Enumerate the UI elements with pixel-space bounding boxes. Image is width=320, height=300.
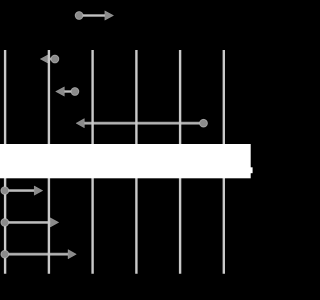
arrow A7 head [68,250,76,259]
arrow A1 shaft [79,14,105,17]
arrow A2 shaft [49,58,55,61]
white highlight band [0,144,251,178]
arrow A5 shaft [5,189,35,192]
dot of arrow A2 [51,55,59,63]
vertical line 6 [223,50,225,274]
arrow A2 head [40,54,49,63]
dot of arrow A4 [200,119,208,127]
dot of arrow A1 [75,12,83,20]
arrow A1 head [105,11,114,20]
vertical line 2 [48,50,50,274]
white band right-edge bump [250,167,253,173]
dot of arrow A5 [1,187,9,195]
vertical line 3 [91,50,93,274]
arrow A6 shaft [5,221,51,224]
arrow A6 head [50,218,59,227]
vertical line 4 [135,50,137,274]
arrow A4 head [76,119,84,128]
dot of arrow A3 [71,88,79,96]
arrow A7 shaft [5,253,68,256]
vertical line 5 [179,50,181,274]
dot of arrow A6 [1,219,9,227]
arrow A3 shaft [64,90,75,93]
arrow A3 head [56,87,65,96]
arrow A4 shaft [84,122,203,125]
arrow A5 head [34,186,43,195]
vertical line 1 [4,50,6,274]
dot of arrow A7 [1,250,9,258]
